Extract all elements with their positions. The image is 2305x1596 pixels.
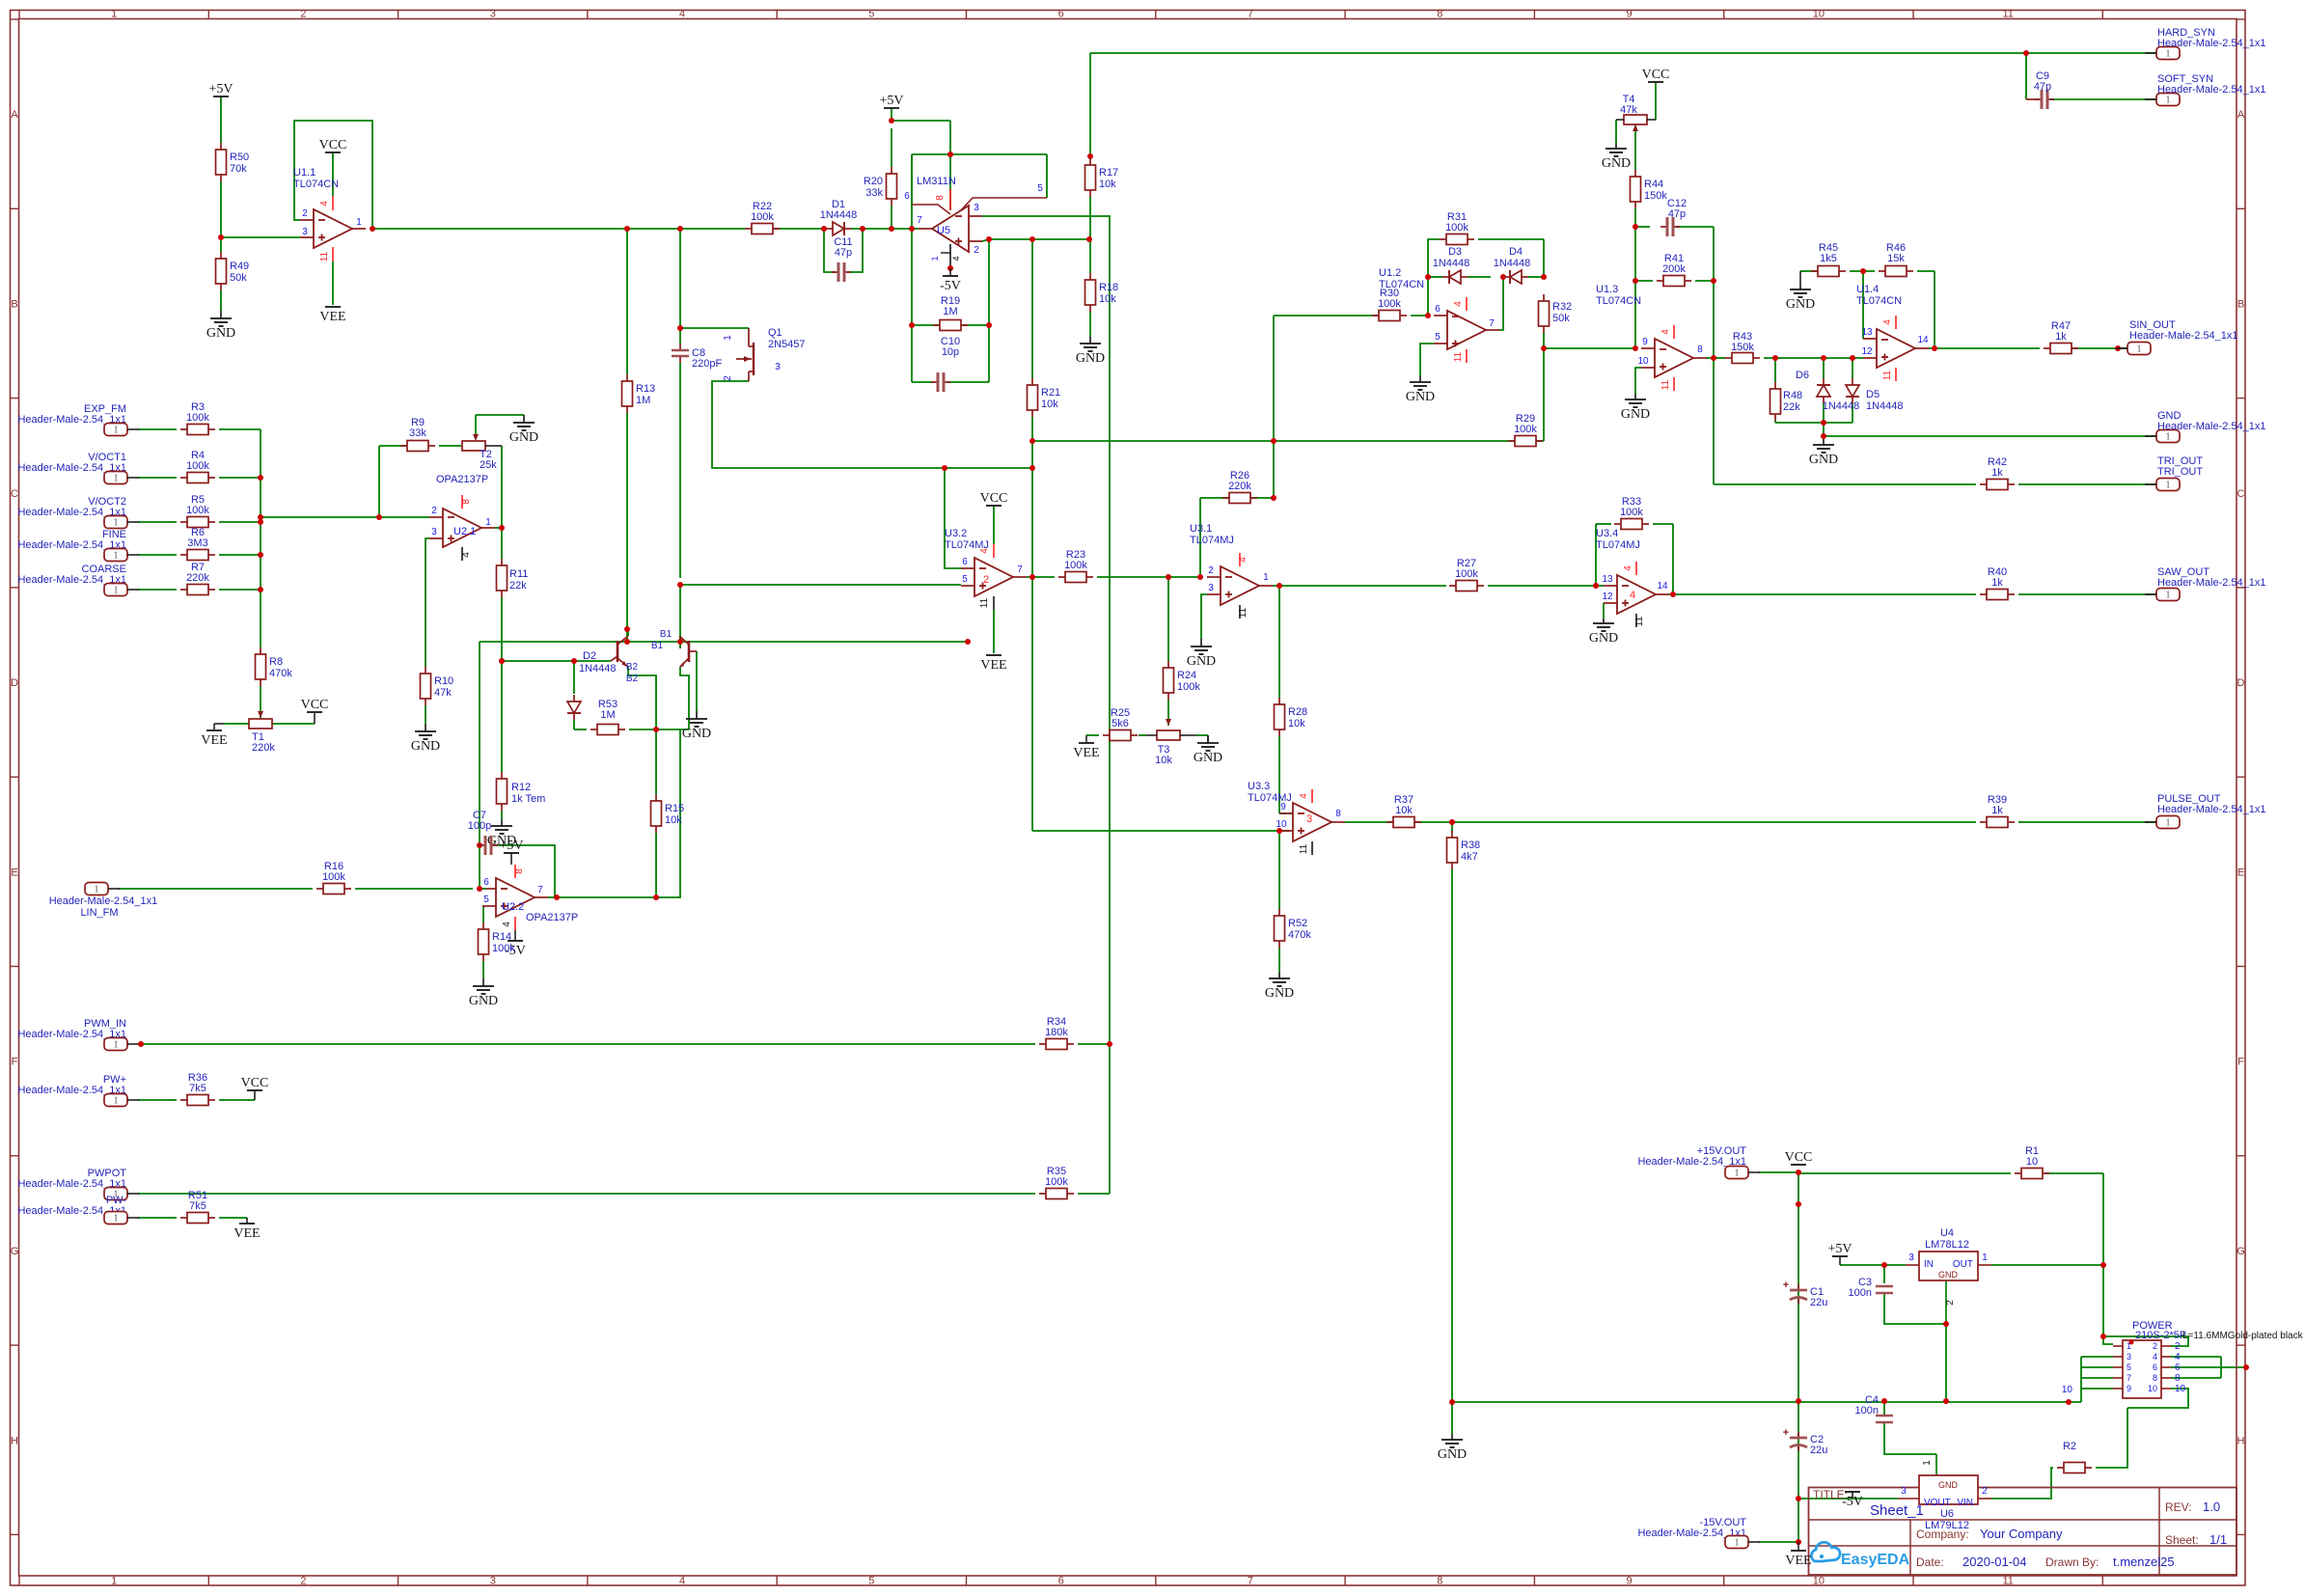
svg-text:U3.1: U3.1 [1190,523,1212,535]
svg-text:G: G [11,1246,19,1257]
svg-text:180k: 180k [1045,1027,1068,1038]
svg-text:IN: IN [1924,1259,1934,1270]
svg-text:R12: R12 [511,782,531,793]
svg-text:4: 4 [1299,793,1309,799]
svg-text:1k5: 1k5 [1820,253,1837,264]
svg-text:1k: 1k [2055,331,2067,343]
svg-text:F: F [12,1057,18,1068]
svg-text:50k: 50k [230,272,247,284]
svg-text:150k: 150k [1644,190,1667,202]
svg-text:U5: U5 [937,225,950,236]
svg-text:-5V: -5V [940,279,961,293]
svg-text:9: 9 [1626,9,1632,20]
svg-text:R48: R48 [1783,390,1802,401]
svg-text:11: 11 [1299,843,1309,854]
svg-text:5k6: 5k6 [1111,718,1129,729]
svg-text:210S-2*5P: 210S-2*5P [2135,1330,2186,1341]
svg-text:1: 1 [1982,1252,1988,1263]
svg-text:3: 3 [1306,813,1312,825]
svg-text:7: 7 [2127,1373,2131,1383]
svg-text:10: 10 [2026,1156,2038,1168]
svg-text:+5V: +5V [1827,1242,1852,1256]
svg-text:10k: 10k [1099,179,1116,190]
svg-text:2: 2 [300,9,306,20]
svg-text:1: 1 [114,518,119,529]
svg-text:R21: R21 [1041,387,1060,399]
svg-text:F: F [2237,1057,2244,1068]
svg-text:1N4448: 1N4448 [1823,400,1860,412]
svg-text:6: 6 [904,191,910,202]
svg-text:TRI_OUT: TRI_OUT [2157,466,2203,478]
svg-text:47p: 47p [835,247,852,259]
svg-text:47p: 47p [1668,208,1686,220]
svg-text:1N4448: 1N4448 [1433,258,1470,269]
svg-text:13: 13 [1861,327,1873,338]
svg-text:Sheet:: Sheet: [2165,1533,2199,1547]
svg-text:1: 1 [2137,344,2142,355]
svg-text:9: 9 [1626,1576,1632,1587]
svg-text:8: 8 [2153,1373,2157,1383]
svg-text:VCC: VCC [1642,68,1670,82]
svg-text:VOUT: VOUT [1924,1498,1951,1508]
svg-text:3: 3 [1208,583,1214,593]
svg-text:2: 2 [1982,1486,1988,1497]
svg-text:TL074MJ: TL074MJ [1596,539,1640,551]
svg-text:4: 4 [2175,1352,2181,1362]
svg-text:B1: B1 [660,629,672,640]
svg-text:1k Tem: 1k Tem [511,793,545,805]
svg-text:33k: 33k [409,427,426,439]
svg-text:C: C [2237,488,2245,500]
svg-text:1N4448: 1N4448 [579,663,617,674]
svg-text:R17: R17 [1099,167,1118,179]
svg-text:GND: GND [1194,751,1222,765]
svg-text:7: 7 [1489,318,1495,329]
svg-text:TL074CN: TL074CN [1596,295,1641,307]
svg-text:7: 7 [1248,9,1253,20]
svg-text:R11: R11 [509,568,528,580]
svg-text:B2: B2 [626,674,639,684]
svg-text:R2: R2 [2063,1441,2076,1452]
svg-text:LM79L12: LM79L12 [1925,1520,1969,1531]
svg-text:4: 4 [1882,319,1893,325]
svg-text:GND: GND [206,326,235,341]
svg-text:D6: D6 [1796,370,1809,381]
svg-text:VEE: VEE [201,733,227,748]
svg-text:1: 1 [356,217,362,228]
svg-text:GND: GND [1938,1480,1959,1490]
svg-text:t.menzel25: t.menzel25 [2113,1555,2175,1569]
svg-text:R28: R28 [1288,706,1307,718]
svg-text:Header-Male-2.54_1x1: Header-Male-2.54_1x1 [2157,577,2266,589]
svg-text:100k: 100k [1064,560,1087,571]
svg-text:1: 1 [114,551,119,562]
svg-text:OPA2137P: OPA2137P [526,912,578,923]
svg-text:TL074CN: TL074CN [293,179,339,190]
svg-text:GND: GND [1621,407,1650,422]
svg-text:2N5457: 2N5457 [768,339,806,350]
svg-text:7: 7 [1248,1576,1253,1587]
svg-text:R44: R44 [1644,179,1663,190]
svg-text:Header-Male-2.54_1x1: Header-Male-2.54_1x1 [2157,84,2266,96]
svg-text:D: D [11,677,18,689]
svg-text:150k: 150k [1731,342,1754,353]
svg-text:OUT: OUT [1953,1259,1973,1270]
svg-text:Header-Male-2.54_1x1: Header-Male-2.54_1x1 [2157,38,2266,49]
svg-text:1M: 1M [636,395,650,406]
svg-text:GND: GND [1438,1447,1467,1462]
svg-text:U1.3: U1.3 [1596,284,1618,295]
svg-text:70k: 70k [230,163,247,175]
svg-text:VEE: VEE [233,1226,260,1241]
svg-text:100k: 100k [1455,568,1478,580]
svg-text:U3.2: U3.2 [945,528,967,539]
svg-text:10p: 10p [942,346,959,358]
svg-text:2: 2 [1208,565,1214,576]
svg-text:E: E [2237,867,2244,878]
svg-text:R18: R18 [1099,282,1118,293]
svg-text:+: + [1783,1427,1789,1439]
svg-text:3: 3 [302,227,308,237]
svg-text:E: E [11,867,17,878]
svg-text:2: 2 [723,375,733,381]
svg-text:1: 1 [1735,1538,1740,1549]
svg-text:8: 8 [461,499,472,505]
svg-text:1: 1 [111,1576,117,1587]
svg-text:B2: B2 [626,662,639,673]
svg-text:8: 8 [1697,344,1703,355]
svg-text:VCC: VCC [980,491,1008,506]
svg-text:U3.4: U3.4 [1596,528,1618,539]
svg-text:1.0: 1.0 [2203,1500,2220,1514]
svg-text:220pF: 220pF [692,358,722,370]
svg-text:1: 1 [114,426,119,436]
svg-text:7: 7 [1017,564,1023,575]
svg-text:6: 6 [483,877,489,888]
svg-text:GND: GND [411,739,440,754]
svg-text:GND: GND [682,727,711,741]
svg-text:4: 4 [319,201,330,206]
svg-text:47p: 47p [2034,81,2051,93]
svg-text:1k: 1k [1991,577,2003,589]
svg-text:100k: 100k [492,943,515,954]
svg-text:9: 9 [2127,1384,2131,1393]
svg-text:12: 12 [1602,592,1613,602]
svg-text:1: 1 [2166,481,2171,491]
svg-text:GND: GND [1187,654,1216,669]
svg-text:3: 3 [431,527,437,537]
svg-text:8: 8 [2175,1373,2181,1384]
svg-text:VEE: VEE [319,310,345,324]
svg-text:11: 11 [1238,607,1249,618]
svg-text:100k: 100k [1514,424,1537,435]
svg-text:1: 1 [114,586,119,596]
svg-text:U4: U4 [1940,1227,1954,1239]
svg-text:VIN: VIN [1957,1498,1973,1508]
svg-text:1: 1 [114,1214,119,1225]
svg-text:470k: 470k [1288,929,1311,941]
svg-text:3: 3 [775,362,781,372]
svg-text:100k: 100k [186,412,209,424]
svg-text:7k5: 7k5 [189,1200,206,1212]
svg-text:7k5: 7k5 [189,1083,206,1094]
svg-text:4: 4 [679,1576,685,1587]
svg-text:3: 3 [2127,1352,2131,1362]
svg-text:100n: 100n [1849,1287,1872,1299]
svg-text:220k: 220k [186,572,209,584]
svg-text:B1: B1 [651,641,664,651]
svg-text:4: 4 [1453,301,1464,307]
svg-text:9: 9 [1642,337,1648,347]
svg-text:10: 10 [2062,1385,2073,1395]
svg-text:Header-Male-2.54_1x1: Header-Male-2.54_1x1 [2157,804,2266,815]
svg-text:3: 3 [974,203,979,213]
svg-text:22k: 22k [1783,401,1800,413]
svg-text:22k: 22k [509,580,527,592]
svg-text:25k: 25k [480,459,497,471]
svg-text:GND: GND [1809,453,1838,467]
svg-text:4: 4 [2153,1352,2157,1362]
svg-text:2: 2 [2153,1341,2157,1351]
svg-text:8: 8 [1437,9,1442,20]
svg-text:A: A [2237,109,2245,121]
svg-text:U1.2: U1.2 [1379,267,1401,279]
svg-text:6: 6 [2153,1362,2157,1372]
svg-text:470k: 470k [269,668,292,679]
svg-text:VCC: VCC [301,698,329,712]
svg-text:8: 8 [1335,809,1341,819]
svg-text:LM311N: LM311N [917,176,956,187]
svg-text:TL074CN: TL074CN [1379,279,1424,290]
svg-text:R10: R10 [434,675,453,687]
svg-text:4k7: 4k7 [1461,851,1478,863]
svg-text:11: 11 [1634,616,1645,626]
svg-text:10: 10 [1813,1576,1825,1587]
svg-text:10: 10 [1813,9,1825,20]
svg-text:REV:: REV: [2165,1500,2192,1514]
svg-text:3M3: 3M3 [187,537,207,549]
svg-text:VEE: VEE [1073,746,1099,760]
svg-text:R52: R52 [1288,918,1307,929]
svg-text:11: 11 [2002,9,2013,20]
svg-text:10k: 10k [1395,805,1413,816]
svg-text:1k: 1k [1991,805,2003,816]
svg-text:1M: 1M [600,709,615,721]
svg-text:1: 1 [114,474,119,484]
svg-text:50k: 50k [1552,313,1570,324]
svg-text:11: 11 [319,251,330,261]
svg-text:R13: R13 [636,383,655,395]
svg-text:2: 2 [300,1576,306,1587]
svg-text:G: G [2236,1246,2245,1257]
svg-text:+5V: +5V [499,839,523,853]
svg-text:4: 4 [1238,557,1249,563]
svg-text:H: H [11,1435,18,1446]
svg-text:3: 3 [1901,1486,1907,1497]
svg-text:GND: GND [1786,297,1815,312]
svg-text:VCC: VCC [241,1076,269,1090]
svg-text:1: 1 [723,335,733,341]
svg-text:D: D [2237,677,2245,689]
svg-text:10k: 10k [1155,755,1172,766]
svg-text:5: 5 [868,9,874,20]
svg-text:R14: R14 [492,931,511,943]
svg-text:14: 14 [1657,581,1668,592]
svg-text:100n: 100n [1855,1405,1879,1417]
svg-text:100k: 100k [1045,1176,1068,1188]
svg-text:1N4448: 1N4448 [820,209,858,221]
svg-text:+5V: +5V [879,94,903,108]
svg-text:1: 1 [95,885,99,895]
svg-text:GND: GND [1265,986,1294,1001]
svg-text:6: 6 [1435,304,1441,315]
svg-text:4: 4 [461,552,472,558]
svg-text:GND: GND [1602,156,1631,171]
svg-text:1: 1 [2166,96,2171,106]
svg-text:100k: 100k [186,505,209,516]
svg-text:B: B [11,298,17,310]
svg-text:D4: D4 [1509,246,1523,258]
svg-text:4: 4 [951,256,961,261]
svg-text:U2.2: U2.2 [502,901,524,913]
svg-text:5: 5 [1435,332,1441,343]
svg-text:Date:: Date: [1916,1555,1944,1569]
svg-text:220k: 220k [252,742,275,754]
svg-text:Header-Male-2.54_1x1: Header-Male-2.54_1x1 [2157,421,2266,432]
svg-text:D5: D5 [1866,389,1880,400]
svg-text:4: 4 [1660,329,1671,335]
svg-text:R50: R50 [230,151,249,163]
svg-text:VEE: VEE [1785,1554,1811,1568]
svg-text:OPA2137P: OPA2137P [436,474,488,485]
svg-text:2: 2 [302,208,308,219]
svg-text:1: 1 [111,9,117,20]
svg-text:100k: 100k [1177,681,1200,693]
svg-text:22u: 22u [1810,1445,1827,1456]
svg-text:R38: R38 [1461,839,1480,851]
svg-text:2: 2 [431,506,437,516]
svg-text:100k: 100k [1445,222,1468,234]
svg-text:4: 4 [679,9,685,20]
svg-text:4: 4 [1630,590,1635,601]
svg-text:10k: 10k [665,814,682,826]
svg-text:7: 7 [537,885,543,895]
svg-text:1: 1 [2166,49,2171,60]
svg-text:10: 10 [1637,356,1649,367]
svg-text:100k: 100k [1620,507,1643,518]
svg-text:1: 1 [930,256,940,261]
svg-text:1: 1 [2166,818,2171,829]
svg-text:VCC: VCC [1785,1150,1813,1165]
svg-text:10: 10 [1276,819,1287,830]
svg-text:11: 11 [2002,1576,2013,1587]
svg-text:EasyEDA: EasyEDA [1841,1552,1910,1568]
svg-text:+: + [1783,1280,1789,1291]
svg-text:5: 5 [2127,1362,2131,1372]
svg-text:100p: 100p [468,820,491,832]
svg-text:11: 11 [1453,351,1464,362]
svg-text:1: 1 [1263,572,1269,583]
svg-text:14: 14 [1917,335,1929,345]
svg-text:1: 1 [1735,1169,1740,1179]
svg-text:3: 3 [490,9,496,20]
svg-text:Your Company: Your Company [1980,1527,2063,1541]
svg-text:U1.4: U1.4 [1856,284,1879,295]
svg-text:10: 10 [2148,1384,2157,1393]
svg-text:2: 2 [1945,1300,1956,1306]
svg-text:100k: 100k [186,460,209,472]
svg-text:1: 1 [114,1096,119,1107]
svg-text:10: 10 [2175,1384,2186,1394]
svg-text:U3.3: U3.3 [1248,781,1270,792]
svg-text:L=11.6MMGold-plated black: L=11.6MMGold-plated black [2182,1331,2304,1341]
svg-text:11: 11 [979,597,990,608]
svg-text:R15: R15 [665,803,684,814]
svg-text:4: 4 [502,922,512,927]
svg-text:100k: 100k [1378,298,1401,310]
svg-text:R24: R24 [1177,670,1196,681]
svg-text:1: 1 [114,1040,119,1051]
svg-text:D3: D3 [1448,246,1462,258]
svg-text:U1.1: U1.1 [293,167,316,179]
svg-text:6: 6 [2175,1362,2181,1373]
svg-text:Header-Male-2.54_1x1: Header-Male-2.54_1x1 [49,895,158,907]
svg-text:33k: 33k [865,187,883,199]
svg-text:1: 1 [485,517,491,528]
svg-text:100k: 100k [751,211,774,223]
svg-text:LM78L12: LM78L12 [1925,1239,1969,1251]
svg-text:7: 7 [917,215,922,226]
svg-text:U2.1: U2.1 [453,526,476,537]
svg-text:6: 6 [1058,9,1064,20]
svg-text:10k: 10k [1288,718,1305,729]
svg-text:D2: D2 [583,650,596,662]
svg-text:1: 1 [2166,432,2171,443]
svg-text:U6: U6 [1940,1508,1954,1520]
svg-text:R49: R49 [230,261,249,272]
svg-text:10k: 10k [1099,293,1116,305]
svg-text:Sheet_1: Sheet_1 [1870,1502,1924,1519]
svg-text:13: 13 [1602,574,1613,585]
svg-text:5: 5 [962,574,968,585]
svg-text:TL074CN: TL074CN [1856,295,1902,307]
svg-text:4: 4 [979,548,990,554]
svg-text:1M: 1M [943,306,957,317]
svg-text:GND: GND [1406,390,1435,404]
svg-text:TL074MJ: TL074MJ [1190,535,1234,546]
svg-text:1: 1 [2166,591,2171,601]
svg-text:1k: 1k [1991,467,2003,479]
svg-text:C: C [11,488,18,500]
svg-text:220k: 220k [1228,481,1251,492]
svg-text:100k: 100k [322,871,345,883]
svg-text:5: 5 [483,894,489,905]
svg-text:2: 2 [974,245,979,256]
svg-text:11: 11 [1882,370,1893,380]
svg-text:Q1: Q1 [768,327,782,339]
svg-text:2: 2 [983,574,989,586]
svg-text:TL074MJ: TL074MJ [1248,792,1292,804]
svg-text:R20: R20 [864,176,883,187]
svg-text:8: 8 [514,868,525,874]
svg-text:11: 11 [1660,379,1671,390]
svg-text:22u: 22u [1810,1297,1827,1308]
svg-text:R8: R8 [269,656,283,668]
svg-text:H: H [2237,1435,2245,1446]
svg-text:A: A [11,109,18,121]
svg-text:1/1: 1/1 [2209,1532,2227,1547]
svg-text:B: B [2237,298,2244,310]
